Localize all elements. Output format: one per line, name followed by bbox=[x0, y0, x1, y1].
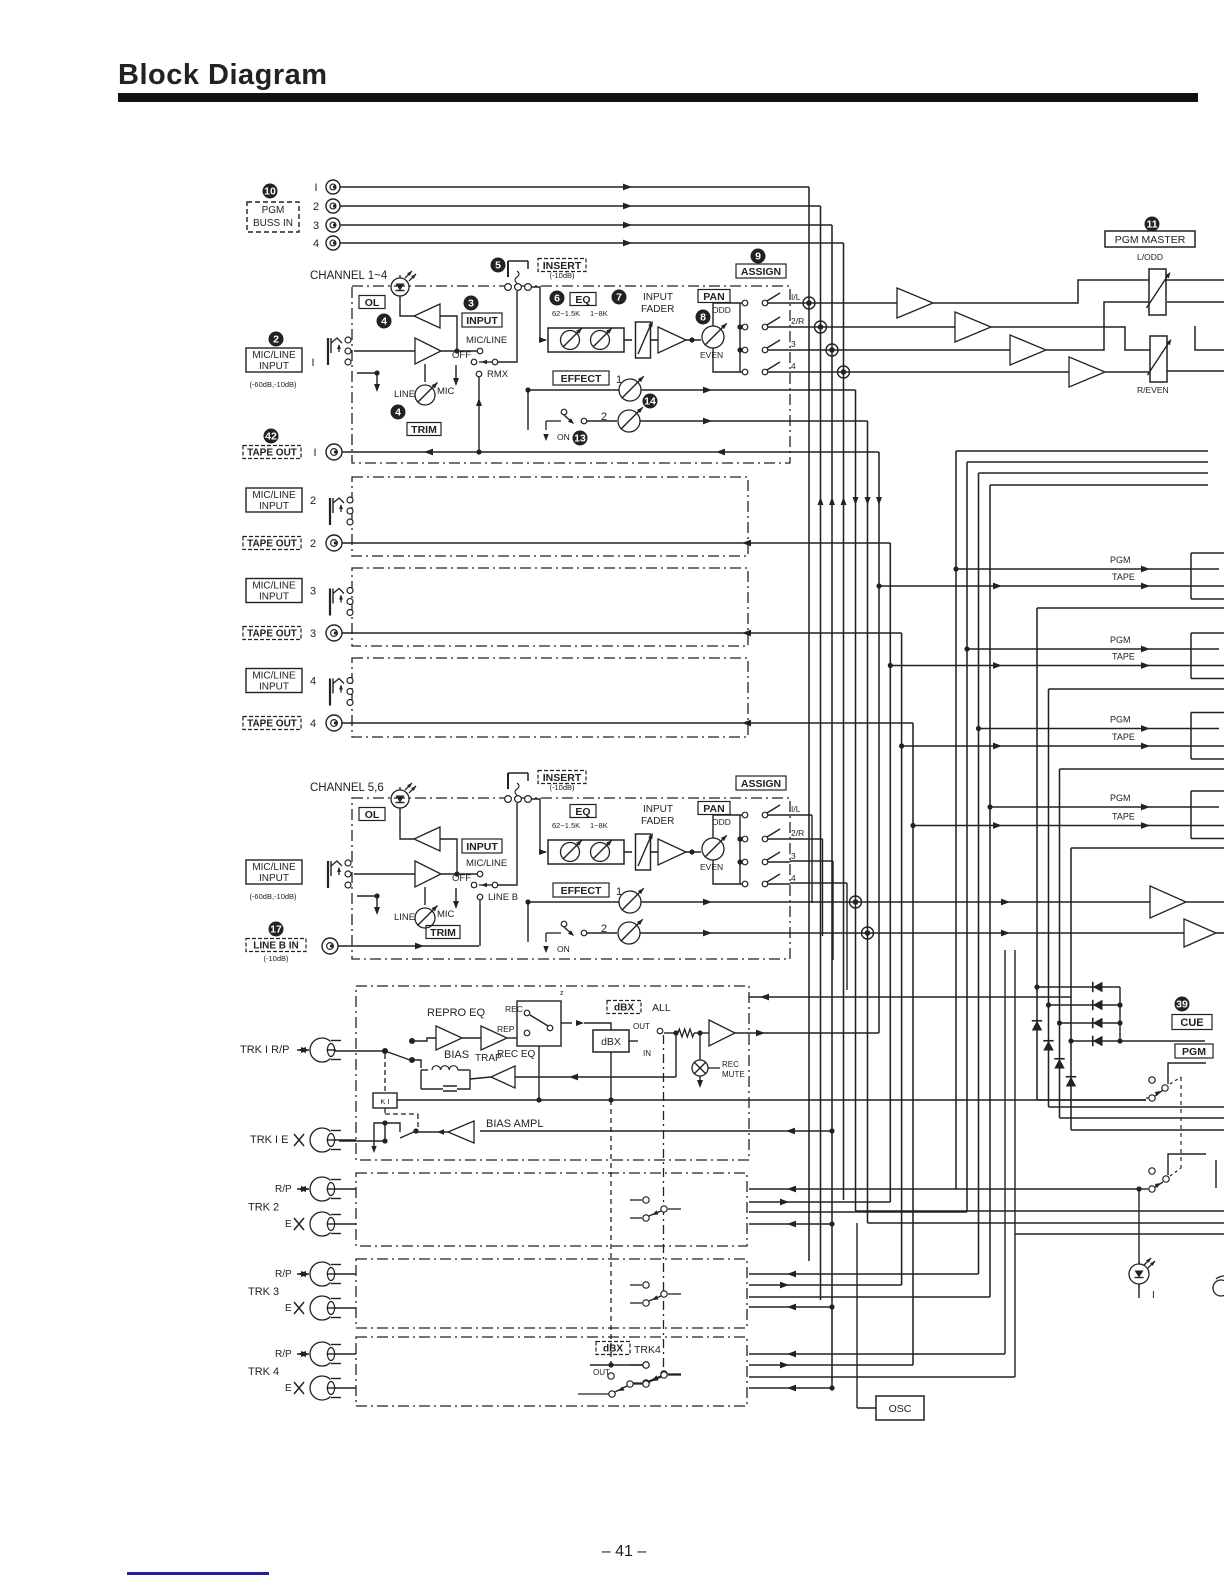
svg-text:I: I bbox=[1152, 1290, 1155, 1301]
svg-text:BIAS: BIAS bbox=[444, 1049, 469, 1061]
svg-text:4: 4 bbox=[381, 316, 387, 328]
svg-text:14: 14 bbox=[644, 396, 656, 408]
svg-text:INPUT: INPUT bbox=[259, 682, 289, 693]
svg-text:9: 9 bbox=[755, 251, 761, 263]
svg-text:I/L: I/L bbox=[791, 804, 801, 814]
svg-text:PAN: PAN bbox=[703, 291, 724, 303]
svg-text:dBX: dBX bbox=[614, 1003, 634, 1014]
svg-text:MIC: MIC bbox=[437, 386, 455, 397]
svg-text:I/L: I/L bbox=[791, 292, 801, 302]
svg-text:TAPE: TAPE bbox=[1112, 732, 1135, 742]
svg-text:REP: REP bbox=[497, 1024, 515, 1034]
svg-text:1~8K: 1~8K bbox=[590, 309, 608, 318]
svg-text:TAPE: TAPE bbox=[1112, 572, 1135, 582]
svg-text:EVEN: EVEN bbox=[700, 862, 723, 872]
svg-text:EFFECT: EFFECT bbox=[561, 373, 602, 385]
svg-text:(-10dB): (-10dB) bbox=[549, 271, 575, 280]
svg-text:OFF: OFF bbox=[452, 873, 471, 884]
svg-text:13: 13 bbox=[574, 433, 586, 445]
svg-text:INPUT: INPUT bbox=[466, 841, 498, 853]
svg-text:CHANNEL 5,6: CHANNEL 5,6 bbox=[310, 782, 384, 794]
svg-text:TRK 2: TRK 2 bbox=[248, 1202, 279, 1214]
svg-text:4: 4 bbox=[791, 873, 796, 883]
svg-text:EQ: EQ bbox=[575, 806, 590, 818]
svg-text:MIC/LINE: MIC/LINE bbox=[466, 858, 507, 869]
svg-text:4: 4 bbox=[395, 407, 401, 419]
svg-text:E: E bbox=[285, 1303, 292, 1314]
svg-text:K I: K I bbox=[380, 1097, 389, 1106]
svg-text:E: E bbox=[285, 1383, 292, 1394]
svg-text:ASSIGN: ASSIGN bbox=[741, 778, 781, 790]
svg-text:62~1.5K: 62~1.5K bbox=[552, 821, 580, 830]
svg-text:3: 3 bbox=[791, 339, 796, 349]
svg-text:TRK 4: TRK 4 bbox=[248, 1366, 279, 1378]
svg-text:EQ: EQ bbox=[575, 294, 590, 306]
svg-text:LINE: LINE bbox=[394, 389, 415, 400]
svg-text:PGM: PGM bbox=[1182, 1046, 1206, 1058]
svg-text:INSERT: INSERT bbox=[543, 260, 582, 272]
svg-text:TRIM: TRIM bbox=[411, 424, 437, 436]
svg-text:MIC/LINE: MIC/LINE bbox=[252, 671, 296, 682]
svg-text:TRK 3: TRK 3 bbox=[248, 1286, 279, 1298]
svg-text:ODD: ODD bbox=[712, 817, 731, 827]
svg-text:dBX: dBX bbox=[601, 1036, 621, 1048]
svg-text:MUTE: MUTE bbox=[722, 1070, 745, 1079]
svg-text:FADER: FADER bbox=[641, 816, 674, 827]
svg-text:(-10dB): (-10dB) bbox=[549, 783, 575, 792]
svg-text:39: 39 bbox=[1176, 999, 1188, 1011]
svg-text:(-60dB,-10dB): (-60dB,-10dB) bbox=[249, 380, 297, 389]
svg-text:CHANNEL 1~4: CHANNEL 1~4 bbox=[310, 270, 388, 282]
svg-text:3: 3 bbox=[468, 298, 474, 310]
svg-text:MIC/LINE: MIC/LINE bbox=[252, 490, 296, 501]
svg-text:REC: REC bbox=[722, 1060, 739, 1069]
svg-text:3: 3 bbox=[310, 586, 316, 598]
svg-text:I: I bbox=[311, 357, 314, 369]
svg-text:INPUT: INPUT bbox=[259, 592, 289, 603]
svg-text:MIC/LINE: MIC/LINE bbox=[466, 335, 507, 346]
svg-text:ASSIGN: ASSIGN bbox=[741, 266, 781, 278]
svg-text:INPUT: INPUT bbox=[643, 804, 673, 815]
svg-text:42: 42 bbox=[265, 431, 277, 443]
svg-text:TAPE OUT: TAPE OUT bbox=[247, 629, 297, 640]
svg-text:BUSS IN: BUSS IN bbox=[253, 218, 293, 229]
svg-text:z: z bbox=[560, 990, 564, 997]
svg-text:10: 10 bbox=[264, 186, 276, 198]
svg-text:LINE: LINE bbox=[394, 912, 415, 923]
svg-text:MIC/LINE: MIC/LINE bbox=[252, 350, 296, 361]
svg-text:R/EVEN: R/EVEN bbox=[1137, 385, 1169, 395]
svg-text:PGM: PGM bbox=[262, 205, 285, 216]
svg-text:4: 4 bbox=[313, 238, 319, 250]
svg-text:ON: ON bbox=[557, 944, 570, 954]
svg-text:BIAS AMPL: BIAS AMPL bbox=[486, 1118, 543, 1130]
svg-text:TRK I E: TRK I E bbox=[250, 1134, 289, 1146]
svg-text:INPUT: INPUT bbox=[259, 501, 289, 512]
svg-text:2: 2 bbox=[313, 201, 319, 213]
svg-text:PGM: PGM bbox=[1110, 715, 1131, 725]
svg-text:2: 2 bbox=[310, 538, 316, 550]
svg-text:2: 2 bbox=[273, 334, 279, 346]
svg-text:I: I bbox=[313, 447, 316, 459]
svg-text:TRK4: TRK4 bbox=[634, 1344, 661, 1356]
svg-text:TAPE: TAPE bbox=[1112, 812, 1135, 822]
svg-text:MIC/LINE: MIC/LINE bbox=[252, 862, 296, 873]
svg-text:OL: OL bbox=[365, 809, 380, 821]
svg-text:OFF: OFF bbox=[452, 350, 471, 361]
svg-text:TRIM: TRIM bbox=[430, 927, 456, 939]
svg-text:OSC: OSC bbox=[889, 1403, 912, 1415]
svg-text:1~8K: 1~8K bbox=[590, 821, 608, 830]
svg-text:62~1.5K: 62~1.5K bbox=[552, 309, 580, 318]
svg-text:REPRO EQ: REPRO EQ bbox=[427, 1007, 486, 1019]
svg-text:2/R: 2/R bbox=[791, 828, 804, 838]
svg-text:REC: REC bbox=[505, 1004, 523, 1014]
svg-text:– 41 –: – 41 – bbox=[602, 1543, 647, 1560]
svg-text:3: 3 bbox=[791, 851, 796, 861]
svg-text:8: 8 bbox=[700, 312, 706, 324]
svg-text:17: 17 bbox=[270, 924, 282, 936]
svg-text:RMX: RMX bbox=[487, 369, 509, 380]
svg-text:I: I bbox=[314, 182, 317, 194]
svg-text:TRK I R/P: TRK I R/P bbox=[240, 1044, 290, 1056]
svg-text:TAPE OUT: TAPE OUT bbox=[247, 539, 297, 550]
svg-text:INSERT: INSERT bbox=[543, 772, 582, 784]
svg-text:3: 3 bbox=[313, 220, 319, 232]
svg-text:R/P: R/P bbox=[275, 1349, 292, 1360]
svg-text:4: 4 bbox=[791, 361, 796, 371]
svg-text:OL: OL bbox=[365, 297, 380, 309]
svg-text:MIC: MIC bbox=[437, 909, 455, 920]
svg-text:REC EQ: REC EQ bbox=[497, 1049, 536, 1060]
svg-text:TAPE: TAPE bbox=[1112, 652, 1135, 662]
svg-text:dBX: dBX bbox=[603, 1344, 623, 1355]
svg-text:6: 6 bbox=[554, 293, 560, 305]
svg-text:FADER: FADER bbox=[641, 304, 674, 315]
svg-text:INPUT: INPUT bbox=[259, 873, 289, 884]
svg-text:PGM: PGM bbox=[1110, 555, 1131, 565]
svg-text:Block Diagram: Block Diagram bbox=[118, 59, 328, 91]
svg-text:MIC/LINE: MIC/LINE bbox=[252, 581, 296, 592]
svg-text:(-10dB): (-10dB) bbox=[263, 954, 289, 963]
svg-text:IN: IN bbox=[643, 1049, 651, 1058]
svg-text:PGM: PGM bbox=[1110, 793, 1131, 803]
svg-text:ON: ON bbox=[557, 432, 570, 442]
svg-text:LINE B: LINE B bbox=[488, 892, 518, 903]
svg-text:INPUT: INPUT bbox=[466, 315, 498, 327]
svg-text:(-60dB,-10dB): (-60dB,-10dB) bbox=[249, 892, 297, 901]
svg-text:ALL: ALL bbox=[652, 1002, 671, 1014]
svg-text:11: 11 bbox=[1146, 219, 1157, 231]
svg-text:7: 7 bbox=[616, 292, 622, 304]
svg-text:ODD: ODD bbox=[712, 305, 731, 315]
svg-text:TAPE OUT: TAPE OUT bbox=[247, 719, 297, 730]
svg-text:OUT: OUT bbox=[633, 1022, 650, 1031]
svg-text:EVEN: EVEN bbox=[700, 350, 723, 360]
svg-text:PGM MASTER: PGM MASTER bbox=[1115, 234, 1186, 246]
svg-text:CUE: CUE bbox=[1180, 1017, 1203, 1029]
svg-text:INPUT: INPUT bbox=[643, 292, 673, 303]
svg-text:5: 5 bbox=[495, 260, 501, 272]
svg-text:TAPE OUT: TAPE OUT bbox=[247, 448, 297, 459]
svg-text:L/ODD: L/ODD bbox=[1137, 252, 1163, 262]
svg-text:LINE B IN: LINE B IN bbox=[253, 941, 299, 952]
svg-text:2/R: 2/R bbox=[791, 316, 804, 326]
svg-text:INPUT: INPUT bbox=[259, 361, 289, 372]
svg-text:PGM: PGM bbox=[1110, 635, 1131, 645]
svg-text:R/P: R/P bbox=[275, 1269, 292, 1280]
svg-text:PAN: PAN bbox=[703, 803, 724, 815]
svg-text:EFFECT: EFFECT bbox=[561, 885, 602, 897]
svg-text:2: 2 bbox=[310, 495, 316, 507]
svg-text:R/P: R/P bbox=[275, 1184, 292, 1195]
svg-text:E: E bbox=[285, 1219, 292, 1230]
svg-text:4: 4 bbox=[310, 718, 316, 730]
svg-text:4: 4 bbox=[310, 676, 316, 688]
svg-text:3: 3 bbox=[310, 628, 316, 640]
